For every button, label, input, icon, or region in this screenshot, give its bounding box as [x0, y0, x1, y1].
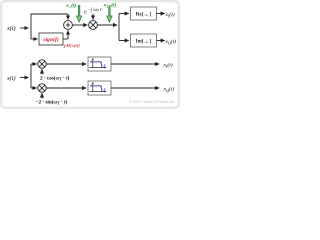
wire: carrier sin up arrow [41, 93, 43, 98]
wire: carrier e into multiplier from top [92, 14, 94, 20]
wire: summer to multiplier [72, 24, 87, 26]
wire: sin multiplier to filter [46, 87, 86, 89]
copyright [129, 99, 175, 104]
wire: into sin multiplier [31, 87, 37, 89]
svg-text:−2 · sin(ωT · t): −2 · sin(ωT · t) [36, 99, 68, 106]
background card [0, 0, 180, 109]
multiplier (complex) [89, 21, 98, 30]
svg-text:xQ(t): xQ(t) [165, 38, 177, 46]
wire: into Hilbert block [31, 38, 38, 40]
wire: filter I output arrow [111, 63, 159, 65]
svg-text:x(t): x(t) [6, 75, 16, 82]
wire: cos multiplier to filter [46, 63, 86, 65]
wire: into summer from top [67, 14, 69, 20]
svg-text:xQ(t): xQ(t) [163, 86, 175, 94]
Re block [131, 7, 157, 20]
Im block [131, 34, 157, 47]
svg-text:x+(t): x+(t) [65, 2, 76, 10]
node label: -2 sin carrier [36, 99, 68, 106]
wire: input arrow bottom [20, 77, 29, 79]
green arrow marker 2 [107, 8, 112, 23]
node: input label x(t) bottom [6, 75, 16, 82]
svg-text:Im[ ... ]: Im[ ... ] [136, 40, 152, 45]
node label: e^-j wT t [84, 8, 102, 16]
summing junction [64, 21, 73, 30]
wire: Hilbert output to summer [63, 30, 68, 39]
node: input label x(t) top [6, 25, 16, 32]
frame [1, 1, 179, 108]
wire: Re output arrow [157, 13, 165, 15]
svg-text:2 · cos(ωT · t): 2 · cos(ωT · t) [40, 75, 70, 82]
wire: carrier cos up arrow [41, 69, 43, 74]
wire: branch vertical top [31, 14, 68, 39]
node label: xQ(t) top [165, 38, 177, 46]
svg-text:© 2007 www.LNTwww.de: © 2007 www.LNTwww.de [129, 99, 175, 104]
wire: branch vertical bottom [30, 64, 32, 88]
Hilbert filter block sign(f) [39, 33, 63, 45]
svg-text:sign(f): sign(f) [42, 36, 59, 43]
wire: into cos multiplier [31, 63, 37, 65]
lowpass filter block I [88, 57, 111, 71]
svg-text:xI(t): xI(t) [165, 11, 175, 19]
svg-text:−j ωT t: −j ωT t [88, 8, 103, 13]
node label: 2 cos carrier [40, 75, 70, 82]
svg-text:j·H{x(t)}: j·H{x(t)} [63, 43, 80, 48]
node label: xTP(t) green [103, 2, 117, 10]
wire: Im output arrow [157, 40, 165, 42]
lowpass filter block Q [88, 81, 111, 95]
node label: xI(t) top [165, 11, 175, 19]
svg-text:xI(t): xI(t) [163, 62, 173, 70]
wire: input arrow top [20, 27, 29, 29]
node label: xQ(t) bottom [163, 86, 175, 94]
wire: into Im block [119, 40, 129, 42]
svg-text:x(t): x(t) [6, 25, 16, 32]
green arrow marker 1 [77, 6, 82, 23]
svg-text:Re[ ... ]: Re[ ... ] [136, 13, 152, 18]
wire: split vertical [118, 14, 120, 41]
node label: j H{x(t)} red [63, 43, 80, 48]
multiplier cos [38, 60, 46, 68]
node label: x+(t) green [65, 2, 76, 10]
wire: into Re block [119, 13, 129, 15]
multiplier sin [38, 84, 46, 92]
wire: filter Q output arrow [111, 87, 159, 89]
node label: xI(t) bottom [163, 62, 173, 70]
wire: multiplier to split node [97, 24, 117, 26]
